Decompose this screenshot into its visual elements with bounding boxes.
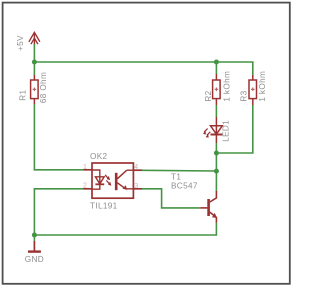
svg-text:R2: R2 (204, 90, 213, 101)
svg-text:OK2: OK2 (90, 152, 108, 161)
svg-text:GND: GND (25, 255, 44, 264)
supply +5V (29, 32, 40, 45)
svg-text:LED1: LED1 (222, 120, 231, 142)
svg-text:BC547: BC547 (171, 182, 198, 191)
node rail junction above R2 (214, 60, 219, 65)
wire R1 to OK2 pin1 (34, 104, 83, 170)
node collector junction (214, 169, 219, 174)
svg-text:T1: T1 (171, 172, 181, 181)
svg-text:68 Ohm: 68 Ohm (39, 72, 48, 103)
wire rail to R2 (215, 62, 217, 74)
svg-text:1: 1 (83, 164, 87, 171)
svg-text:+5V: +5V (16, 35, 25, 51)
resistor R3 (249, 75, 257, 105)
resistor R1 (31, 75, 38, 104)
svg-text:R3: R3 (239, 90, 248, 101)
wire top horizontal +5V rail (34, 62, 252, 75)
wire +5V to R1 (33, 44, 35, 75)
optocoupler OK2 (84, 163, 143, 198)
svg-text:R1: R1 (18, 90, 27, 101)
node GND junction (32, 233, 37, 238)
wire bottom emitter to GND junction (34, 223, 216, 235)
node LED cathode junction (214, 151, 219, 156)
resistor R2 (213, 74, 221, 105)
node +5V junction (32, 60, 37, 65)
ground GND (28, 241, 41, 252)
svg-text:TIL191: TIL191 (90, 201, 118, 210)
svg-text:4: 4 (134, 164, 138, 171)
svg-text:1 kOhm: 1 kOhm (258, 71, 267, 102)
wire LED1 to node (215, 143, 217, 192)
svg-text:1 kOhm: 1 kOhm (222, 71, 231, 102)
transistor T1 (200, 191, 216, 223)
svg-text:2: 2 (83, 183, 87, 190)
svg-text:3: 3 (134, 183, 138, 190)
diode LED1 (204, 117, 222, 143)
wire node to R3 bottom (216, 105, 252, 153)
wire OK2 pin2 to GND rail (34, 189, 83, 241)
wire OK2 pin3 to T1 base (142, 189, 200, 208)
wire R2 to LED1 (215, 105, 217, 117)
wire OK2 pin4 to collector node (142, 169, 216, 172)
